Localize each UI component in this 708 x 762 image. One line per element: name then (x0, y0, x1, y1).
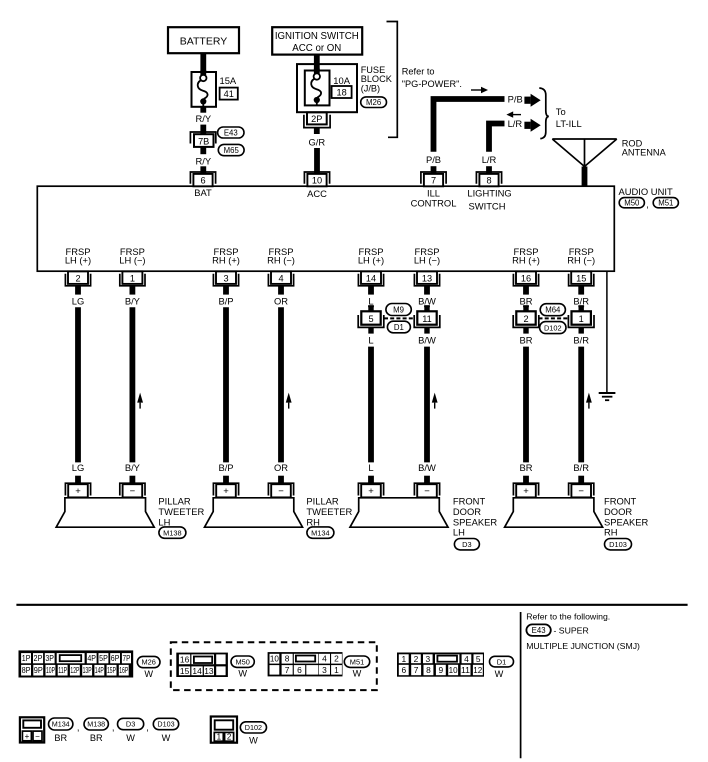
wire audio unit case ground (606, 271, 608, 392)
svg-text:CONTROL: CONTROL (411, 198, 457, 209)
svg-text:RH: RH (604, 527, 618, 538)
svg-text:L: L (368, 462, 373, 473)
svg-text:6: 6 (297, 665, 302, 675)
connector label M138 (BR) (84, 718, 108, 743)
svg-text:8: 8 (486, 176, 491, 186)
svg-text:W: W (353, 669, 362, 679)
svg-text:BATTERY: BATTERY (180, 35, 227, 47)
connector label D102 (W) (240, 722, 266, 746)
pin 13 FRSP LH (&# label (414, 246, 440, 266)
svg-text:6P: 6P (111, 653, 120, 663)
svg-text:ANTENNA: ANTENNA (622, 148, 667, 158)
connector 2P (304, 112, 330, 127)
svg-text:11P: 11P (58, 665, 67, 675)
connector label D103 (W) (153, 718, 178, 743)
wire label G/R (308, 137, 325, 148)
wire L/R to LT-ILL (489, 124, 505, 174)
svg-text:M26: M26 (142, 658, 156, 667)
wire label B/R (573, 334, 589, 345)
pin 15 (569, 271, 594, 294)
svg-text:6: 6 (401, 665, 406, 675)
direction arrow left (506, 111, 521, 117)
svg-text:7: 7 (414, 665, 419, 675)
svg-text:+: + (368, 486, 374, 497)
pin 6 BAT (190, 172, 215, 198)
wire label LG (tweeter LH +) (72, 462, 85, 473)
svg-text:7: 7 (431, 176, 436, 186)
wire label B/R (573, 295, 589, 306)
wire L connector to speaker (368, 347, 374, 463)
svg-text:1P: 1P (22, 653, 31, 663)
svg-text:14: 14 (192, 666, 202, 676)
svg-text:LH (+): LH (+) (65, 255, 91, 266)
connector label D1 (387, 321, 410, 333)
wire BR connector to speaker (523, 347, 529, 463)
svg-text:16: 16 (521, 273, 531, 283)
svg-text:16: 16 (180, 654, 190, 664)
connector label M51 (653, 198, 678, 208)
connector face M50 (176, 653, 228, 677)
svg-text:+: + (75, 486, 81, 497)
svg-text:BAT: BAT (194, 187, 212, 198)
svg-text:9P: 9P (34, 665, 43, 675)
speaker label D3 (453, 496, 498, 550)
rod antenna (552, 139, 617, 187)
svg-text:M134: M134 (52, 720, 70, 729)
connector 7B (SMJ E43 / M65) (190, 132, 215, 147)
pin 15 FRSP RH (&# label (567, 246, 595, 266)
svg-text:18: 18 (336, 87, 346, 97)
svg-text:(J/B): (J/B) (361, 83, 380, 93)
wire label P/B (pin 7) (426, 154, 441, 165)
speaker D3 FRONT LH (350, 498, 448, 527)
svg-text:10: 10 (270, 654, 279, 664)
svg-text:10: 10 (312, 176, 322, 186)
svg-text:,: , (646, 199, 649, 210)
svg-text:−: − (130, 486, 136, 497)
svg-text:"PG-POWER".: "PG-POWER". (402, 79, 462, 89)
svg-text:R/Y: R/Y (195, 113, 211, 124)
wire B/Y pin 1 to speaker (129, 307, 135, 462)
wire label L/R (pin 8) (482, 154, 497, 165)
svg-text:,: , (112, 722, 115, 733)
svg-text:IGNITION SWITCH: IGNITION SWITCH (275, 31, 359, 42)
svg-text:LH (−): LH (−) (119, 255, 145, 266)
svg-text:BR: BR (54, 733, 67, 743)
svg-text:BR: BR (519, 295, 532, 306)
connector label E43 (218, 127, 244, 138)
svg-text:14: 14 (366, 273, 376, 283)
wire label BR (519, 295, 532, 306)
connector label M65 (218, 144, 244, 155)
svg-text:12: 12 (473, 665, 482, 675)
svg-text:4P: 4P (87, 653, 96, 663)
svg-text:15: 15 (576, 273, 586, 283)
svg-text:B/R: B/R (573, 295, 589, 306)
terminal &#8722; (120, 476, 145, 498)
svg-text:−: − (578, 486, 584, 497)
svg-text:12P: 12P (70, 665, 79, 675)
wire B/R connector to speaker (578, 347, 584, 463)
connector label M64 (540, 304, 565, 316)
svg-text:BR: BR (519, 334, 532, 345)
svg-text:D3: D3 (462, 540, 471, 549)
connector face M26 (19, 650, 134, 677)
wire label B/R (573, 462, 589, 473)
svg-text:2P: 2P (34, 653, 43, 663)
svg-text:5: 5 (368, 314, 373, 324)
svg-text:15P: 15P (107, 665, 116, 675)
battery (168, 27, 239, 53)
svg-text:11: 11 (461, 665, 470, 675)
polarity arrow (432, 393, 438, 409)
svg-text:D103: D103 (609, 540, 627, 549)
separator vertical (520, 612, 522, 758)
polarity arrow (286, 393, 292, 409)
svg-text:L: L (368, 334, 373, 345)
svg-text:B/R: B/R (573, 462, 589, 473)
refer to PG-POWER bracket (387, 22, 398, 138)
terminal &#8722; (414, 476, 439, 498)
svg-text:W: W (249, 736, 258, 746)
svg-text:+: + (223, 486, 229, 497)
connector label M50 (W) (231, 656, 254, 679)
pin 2 (65, 271, 90, 294)
connector label D3 (W) (118, 718, 144, 743)
pin 4 FRSP RH (&# label (267, 246, 295, 266)
svg-text:3: 3 (425, 654, 430, 664)
svg-text:1: 1 (579, 314, 584, 324)
connector 2 (513, 305, 539, 333)
svg-text:M51: M51 (350, 657, 364, 666)
svg-text:M64: M64 (545, 306, 561, 315)
svg-text:LH: LH (158, 516, 170, 527)
connector label D1 (W) (490, 656, 514, 679)
svg-text:LIGHTING: LIGHTING (467, 187, 511, 198)
pin 7 ILL CONTROL (411, 172, 457, 209)
connector face speaker terminals (20, 717, 44, 742)
pin 16 (513, 271, 538, 294)
fuse 18 (10A) (305, 69, 352, 106)
pin 2 FRSP LH (+) label (65, 246, 91, 266)
pin 3 FRSP RH (+) label (212, 246, 240, 266)
svg-text:M9: M9 (393, 305, 404, 314)
audio unit label (619, 186, 673, 197)
svg-text:ACC: ACC (307, 188, 327, 199)
wire label L (368, 334, 373, 345)
svg-text:LH (+): LH (+) (358, 255, 384, 266)
connector label M134 (BR) (49, 718, 73, 743)
wire label R/Y (195, 113, 211, 124)
note Refer to PG-POWER (402, 67, 462, 89)
wire label R/Y (195, 155, 211, 166)
svg-text:B/W: B/W (418, 334, 436, 345)
svg-text:BR: BR (90, 733, 103, 743)
svg-text:5P: 5P (99, 653, 108, 663)
svg-text:3: 3 (322, 665, 327, 675)
svg-text:To: To (556, 106, 566, 117)
wire label L (368, 462, 373, 473)
svg-text:D1: D1 (497, 657, 506, 666)
svg-text:1: 1 (217, 733, 222, 742)
ignition switch supply (272, 27, 362, 54)
pin 4 (268, 271, 293, 294)
connector label M9 (386, 304, 411, 316)
connector 5 (358, 305, 384, 333)
svg-text:−: − (278, 486, 284, 497)
wire LG pin 2 to speaker (75, 307, 81, 462)
wire label LG (72, 295, 85, 306)
svg-text:B/R: B/R (573, 334, 589, 345)
off-page arrow L/R (524, 119, 540, 132)
svg-text:LH: LH (453, 527, 465, 538)
svg-text:3: 3 (223, 273, 228, 283)
svg-text:13: 13 (204, 666, 214, 676)
svg-text:,: , (77, 722, 80, 733)
pin 3 (213, 271, 238, 294)
svg-text:LG: LG (72, 462, 85, 473)
separator line (16, 604, 687, 606)
wire label B/P (218, 462, 233, 473)
svg-text:−: − (424, 486, 430, 497)
connector label M50 (619, 198, 644, 208)
pin 13 (414, 271, 439, 294)
svg-text:- SUPER: - SUPER (554, 626, 589, 636)
wire L pin 14 to connector (368, 305, 374, 307)
polarity arrow (586, 393, 592, 409)
svg-text:RH (−): RH (−) (567, 255, 595, 266)
svg-text:RH (−): RH (−) (267, 255, 295, 266)
svg-text:W: W (238, 669, 247, 679)
antenna label ROD ANTENNA (622, 138, 667, 157)
svg-text:1: 1 (334, 665, 339, 675)
svg-text:L/R: L/R (482, 154, 497, 165)
svg-text:15: 15 (180, 666, 190, 676)
svg-text:D1: D1 (394, 323, 404, 332)
pin 10 ACC (304, 172, 329, 199)
svg-text:ACC or ON: ACC or ON (292, 43, 341, 54)
connector label M51 (W) (344, 656, 369, 679)
pin 14 FRSP LH (+) label (358, 246, 384, 266)
connector face D102 (211, 717, 237, 743)
wire label OR (274, 295, 288, 306)
pin 16 FRSP RH (+) label (512, 246, 540, 266)
brace to LT-ILL (539, 88, 549, 139)
note To LT-ILL (556, 106, 582, 129)
svg-text:5: 5 (476, 654, 481, 664)
svg-text:4: 4 (464, 654, 469, 664)
svg-text:1: 1 (401, 654, 406, 664)
svg-text:2: 2 (334, 654, 339, 664)
svg-text:6: 6 (200, 176, 205, 186)
wire label B/P (218, 295, 233, 306)
wire B/R pin 15 to connector (578, 305, 584, 307)
svg-text:RH (+): RH (+) (512, 255, 540, 266)
svg-text:M138: M138 (163, 528, 182, 537)
wire label B/W (418, 295, 436, 306)
pin 1 (120, 271, 145, 294)
svg-text:7B: 7B (198, 136, 209, 146)
wire OR pin 4 to speaker (278, 307, 284, 462)
pin 8 LIGHTING SWITCH (467, 172, 511, 211)
svg-text:LH (−): LH (−) (414, 255, 440, 266)
note refer to following (526, 611, 610, 621)
speaker M138 PILLAR LH (56, 498, 154, 527)
svg-text:B/W: B/W (418, 295, 436, 306)
svg-text:−: − (35, 732, 40, 741)
svg-text:10: 10 (449, 665, 458, 675)
svg-text:D102: D102 (544, 323, 562, 332)
connector label E43 SMJ (526, 624, 588, 636)
svg-text:16P: 16P (119, 665, 128, 675)
svg-text:M26: M26 (366, 98, 381, 107)
speaker label M138 (158, 496, 204, 539)
svg-text:10P: 10P (46, 665, 55, 675)
svg-text:2: 2 (414, 654, 419, 664)
svg-text:P/B: P/B (426, 154, 441, 165)
wire label B/Y (125, 295, 141, 306)
svg-text:M134: M134 (311, 528, 330, 537)
svg-text:8: 8 (285, 654, 290, 664)
svg-text:15A: 15A (220, 75, 237, 86)
svg-text:7P: 7P (123, 653, 131, 663)
svg-text:2P: 2P (311, 114, 322, 124)
wire B/P pin 3 to speaker (223, 307, 229, 462)
terminal + (513, 476, 538, 498)
wire fuse 41 to connector 7B (R/Y) (200, 107, 206, 113)
svg-text:D103: D103 (157, 720, 174, 729)
svg-text:B/W: B/W (418, 462, 436, 473)
svg-text:W: W (495, 669, 504, 679)
wire label L/R (508, 118, 523, 129)
wire label B/Y (125, 462, 141, 473)
pin 1 FRSP LH (&# label (119, 246, 145, 266)
svg-text:10A: 10A (333, 75, 350, 86)
svg-text:LG: LG (72, 295, 85, 306)
wire connector 2P to pin 10 (G/R) (314, 128, 320, 134)
svg-text:2: 2 (75, 273, 80, 283)
svg-text:+: + (523, 486, 529, 497)
wire label P/B (508, 94, 523, 105)
svg-text:13: 13 (422, 273, 432, 283)
wire label B/W (418, 462, 436, 473)
wire B/W connector to speaker (424, 347, 430, 463)
terminal + (65, 476, 90, 498)
connector face D1 (397, 653, 484, 677)
svg-text:AUDIO UNIT: AUDIO UNIT (619, 186, 673, 197)
terminal &#8722; (569, 476, 594, 498)
speaker label M134 (306, 496, 352, 539)
svg-text:B/P: B/P (218, 295, 233, 306)
svg-text:RH: RH (306, 516, 320, 527)
terminal &#8722; (268, 476, 293, 498)
wire label OR (274, 462, 288, 473)
svg-text:7: 7 (285, 665, 290, 675)
svg-text:OR: OR (274, 295, 288, 306)
direction arrow right (471, 87, 488, 94)
connector 1 (568, 305, 594, 333)
svg-text:W: W (144, 669, 153, 679)
svg-text:14P: 14P (95, 665, 104, 675)
fuse block label FUSE BLOCK (J/B) (361, 65, 393, 94)
speaker D103 FRONT RH (505, 498, 603, 527)
svg-text:8: 8 (426, 665, 431, 675)
wire label BR (519, 334, 532, 345)
connector label M26 (W) (137, 656, 160, 678)
speaker M134 PILLAR RH (205, 498, 303, 527)
harness junction dashed line M64/D102 (539, 317, 569, 319)
svg-text:B/P: B/P (218, 462, 233, 473)
fuse 41 (15A) (192, 70, 238, 107)
svg-text:1: 1 (130, 273, 135, 283)
speaker label D103 (604, 496, 649, 550)
svg-text:2: 2 (523, 314, 528, 324)
svg-text:OR: OR (274, 462, 288, 473)
harness junction dashed line M9/D1 (384, 317, 415, 319)
svg-text:M65: M65 (224, 146, 240, 155)
svg-text:E43: E43 (532, 626, 546, 635)
svg-text:41: 41 (224, 89, 234, 99)
svg-text:E43: E43 (224, 128, 238, 137)
wire label BR (519, 462, 532, 473)
svg-text:M51: M51 (658, 199, 673, 208)
svg-text:L: L (368, 295, 373, 306)
svg-text:B/Y: B/Y (125, 295, 141, 306)
svg-text:+: + (25, 732, 30, 741)
svg-text:,: , (146, 722, 149, 733)
svg-text:LT-ILL: LT-ILL (556, 118, 582, 129)
wire label B/W (418, 334, 436, 345)
svg-text:G/R: G/R (308, 137, 325, 148)
svg-text:W: W (162, 733, 171, 743)
svg-text:R/Y: R/Y (195, 155, 211, 166)
svg-text:L/R: L/R (508, 118, 523, 129)
svg-text:13P: 13P (83, 665, 92, 675)
svg-text:B/Y: B/Y (125, 462, 141, 473)
svg-text:8P: 8P (22, 665, 31, 675)
ground (599, 393, 616, 400)
svg-text:M50: M50 (236, 657, 250, 666)
svg-text:BR: BR (519, 462, 532, 473)
svg-text:3P: 3P (45, 653, 54, 663)
svg-text:9: 9 (438, 665, 443, 675)
svg-text:D3: D3 (126, 720, 135, 729)
terminal + (213, 476, 238, 498)
svg-text:2: 2 (227, 733, 232, 742)
svg-text:SWITCH: SWITCH (469, 200, 506, 211)
svg-text:Refer to: Refer to (402, 67, 435, 77)
audio unit U1 (37, 186, 614, 271)
svg-text:M138: M138 (87, 720, 105, 729)
wire B/W pin 13 to connector (424, 305, 430, 307)
polarity arrow (137, 393, 143, 409)
connector label D102 (540, 322, 566, 334)
off-page arrow P/B (524, 94, 540, 107)
wire connector 7B to pin 6 (R/Y) (200, 147, 206, 154)
terminal + (358, 476, 383, 498)
svg-text:D102: D102 (245, 723, 262, 732)
connector 11 (414, 305, 440, 333)
wire ignition switch to fuse 18 (314, 55, 320, 71)
svg-text:Refer to the following.: Refer to the following. (526, 611, 610, 621)
connector label M26 (361, 97, 387, 108)
svg-text:M50: M50 (624, 199, 640, 208)
svg-text:MULTIPLE JUNCTION (SMJ): MULTIPLE JUNCTION (SMJ) (526, 641, 640, 651)
svg-text:11: 11 (422, 314, 432, 324)
wire BR pin 16 to connector (523, 305, 529, 307)
fuse block J/B box (297, 64, 357, 112)
svg-text:W: W (126, 733, 135, 743)
